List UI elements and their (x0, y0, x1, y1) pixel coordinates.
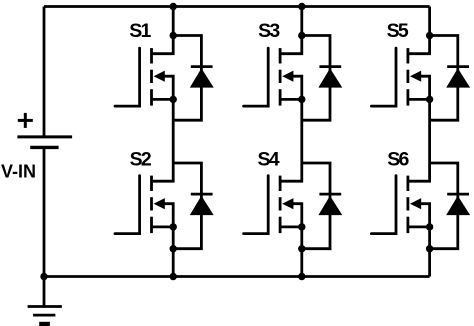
node: source node S4 (298, 223, 305, 230)
node: diode rejoin S2 (170, 245, 177, 252)
diode D1 (anti-parallel with S1) (173, 36, 214, 121)
diode D5 (anti-parallel with S5) (430, 36, 471, 121)
node: source node S3 (phase output) (298, 96, 305, 103)
wire: battery negative lead (43, 147, 46, 276)
wire: battery positive lead (43, 7, 46, 137)
transistor S5 (N-MOSFET) (371, 20, 429, 106)
wire: negative DC bus (bottom rail) (44, 275, 430, 278)
node: bottom rail junction leg 1 (170, 273, 177, 280)
battery V-IN (17, 137, 72, 148)
svg-text:S3: S3 (258, 20, 280, 42)
+ polarity mark (18, 113, 33, 128)
node: bottom rail junction leg 2 (298, 273, 305, 280)
wire: phase leg 3 vertical rail (428, 7, 431, 277)
node: drain node S5 (426, 32, 433, 39)
diode D4 (anti-parallel with S4) (302, 163, 343, 249)
node: top rail junction leg 1 (170, 3, 177, 10)
diode D6 (anti-parallel with S6) (430, 163, 471, 249)
diode D3 (anti-parallel with S3) (302, 36, 343, 121)
transistor S3 (N-MOSFET) (244, 20, 302, 106)
svg-text:S5: S5 (387, 20, 409, 42)
wire: positive DC bus (top rail) (44, 5, 430, 8)
wire: phase leg 2 vertical rail (300, 7, 303, 277)
svg-text:S6: S6 (387, 149, 409, 171)
node: battery negative / ground junction (40, 273, 47, 280)
node: source node S1 (phase output) (170, 96, 177, 103)
transistor S6 (N-MOSFET) (371, 149, 429, 234)
node: source node S5 (phase output) (426, 96, 433, 103)
node: drain node S1 (170, 32, 177, 39)
svg-text:S2: S2 (130, 149, 152, 171)
transistor S1 (N-MOSFET) (115, 20, 173, 106)
diode D2 (anti-parallel with S2) (173, 163, 214, 249)
svg-text:S1: S1 (129, 20, 151, 42)
node: source node S6 (426, 223, 433, 230)
ground (28, 277, 62, 326)
node: diode rejoin S6 (426, 245, 433, 252)
node: top rail junction leg 2 (298, 3, 305, 10)
wire: phase leg 1 vertical rail (172, 7, 175, 277)
svg-text:V-IN: V-IN (1, 162, 36, 182)
node: drain node S3 (298, 32, 305, 39)
node: diode rejoin S4 (298, 245, 305, 252)
transistor S4 (N-MOSFET) (244, 149, 302, 234)
node: source node S2 (170, 223, 177, 230)
transistor S2 (N-MOSFET) (115, 149, 173, 234)
svg-text:S4: S4 (258, 149, 280, 171)
